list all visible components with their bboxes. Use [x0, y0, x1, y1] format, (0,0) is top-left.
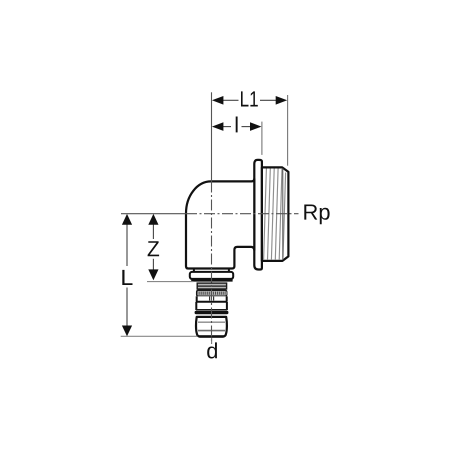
label Z [148, 241, 160, 256]
band below window [196, 302, 227, 310]
label Rp [304, 205, 329, 225]
thread hatch lines [264, 169, 286, 260]
press collar [190, 272, 233, 279]
elbow body outline [186, 179, 254, 269]
white band with window [196, 296, 228, 302]
label l [236, 117, 238, 133]
extension line Z bottom [147, 281, 194, 283]
centerline stub below fitting [211, 338, 213, 344]
extension line L bottom [121, 335, 198, 337]
o-ring (black bar) [195, 311, 229, 314]
vertical centerline (dash-dot) [211, 182, 213, 344]
arrow Z top [148, 214, 158, 225]
barb gray line 1 [198, 321, 225, 323]
arrow l right [250, 122, 262, 131]
arrow L1 left [212, 96, 224, 105]
dimension line l [223, 126, 252, 128]
arrow L bottom [122, 326, 132, 337]
arrow Z bottom [148, 269, 158, 280]
label d [207, 342, 217, 358]
arrow L top [122, 214, 132, 225]
grip ridge block [197, 283, 226, 289]
label L1 [241, 91, 258, 106]
extension line left vertical (L1/l) [211, 92, 213, 181]
horizontal centerline (dash-dot) [186, 213, 299, 215]
dimension line L [126, 224, 128, 326]
thread cylinder with chamfered end [262, 167, 289, 261]
chamfer inner edge line [282, 168, 284, 260]
neck below body [194, 269, 229, 273]
dimension line Z [152, 224, 154, 270]
barb bottom edge [200, 335, 224, 337]
arrow L1 right [276, 96, 288, 105]
bottom barb section [196, 317, 227, 337]
collar washer line [191, 280, 232, 282]
barb gray line 2 [198, 330, 225, 332]
arrow l left [212, 122, 224, 131]
extension line l right [261, 122, 263, 155]
extension line Z/L top [121, 213, 186, 215]
knurled indicator band [197, 290, 227, 296]
dimension line L1 [223, 99, 278, 101]
flange (collar disc of threaded connection) [254, 160, 262, 270]
extension line L1 right [287, 95, 289, 166]
label L [122, 270, 132, 285]
